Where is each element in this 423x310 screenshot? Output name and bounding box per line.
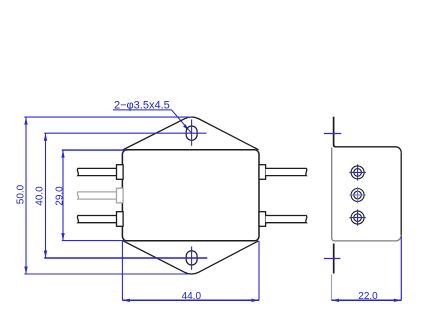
- side view: terminal 1 inner circle: [354, 169, 362, 177]
- dimension 50.0 bottom arrow: [24, 267, 27, 275]
- front view: pin R1 right lead: [266, 168, 307, 175]
- dimension 40.0 vertical line: [45, 133, 47, 258]
- side view: bottom hole centerline tick: [324, 258, 341, 260]
- front view: pin 2 left ferrule (gray): [117, 188, 124, 203]
- front view: bottom hole vertical centerline: [191, 247, 193, 270]
- front view: body outline: [122, 150, 259, 241]
- front view: pin R2 right lead: [266, 216, 307, 223]
- front view: pin 3 left ferrule: [117, 212, 124, 227]
- front view: bottom mounting tab: [123, 241, 259, 274]
- front view: bottom mounting hole: [186, 251, 197, 265]
- side view: terminal 3 outer circle: [351, 211, 364, 224]
- front view: pin 1 left ferrule: [117, 165, 124, 180]
- callout text 2-phi3.5x4.5: [114, 99, 170, 111]
- dimension 29.0 vertical line: [62, 150, 64, 241]
- callout leader line with underline: [113, 110, 192, 133]
- dimension 44.0 extension line left: [121, 241, 123, 300]
- side view: top flange: [334, 117, 336, 147]
- dimension 40.0 extension line top (hole centerline): [44, 132, 206, 134]
- dimension 40.0 extension line bottom (hole centerline): [44, 257, 207, 259]
- front view: pin R1 right ferrule: [259, 165, 266, 180]
- dimension 29.0 extension line top: [62, 149, 128, 151]
- dimension 50.0 vertical line: [25, 117, 27, 274]
- side view: body top edge: [336, 147, 402, 153]
- front view: pin 1 left lead: [77, 168, 117, 175]
- dimension 22.0 extension line right: [400, 236, 402, 300]
- dimension 40.0 text: [35, 186, 46, 206]
- svg-text:29.0: 29.0: [54, 186, 65, 206]
- side view: body bottom edge (gray): [332, 235, 402, 241]
- side view: terminal 2 crosshair (light): [349, 187, 365, 203]
- dimension 50.0 extension line top: [24, 116, 192, 118]
- side view: terminal 3 inner circle: [354, 214, 362, 222]
- svg-text:44.0: 44.0: [182, 291, 202, 302]
- svg-text:40.0: 40.0: [35, 186, 46, 206]
- dimension 29.0 top arrow: [61, 150, 64, 158]
- side view: terminal 2 inner circle: [354, 191, 362, 199]
- side view: terminal 3 crosshair: [349, 209, 365, 225]
- callout leader arrowhead: [183, 124, 188, 130]
- dimension 22.0 right arrow: [394, 299, 402, 302]
- front view: pin 3 left lead: [77, 216, 117, 223]
- dimension 44.0 line: [122, 299, 259, 301]
- front view: top mounting tab: [123, 117, 259, 150]
- dimension 44.0 left arrow: [122, 299, 129, 302]
- front view: top mounting hole: [186, 126, 197, 140]
- dimension 22.0 left arrow: [332, 299, 340, 302]
- dimension 44.0 right arrow: [252, 299, 260, 302]
- front view: top hole vertical centerline: [191, 120, 193, 146]
- side view: body right edge: [400, 152, 402, 235]
- dimension 22.0 line: [332, 299, 402, 301]
- dimension 40.0 bottom arrow: [44, 251, 47, 259]
- dimension 50.0 text: [16, 184, 27, 204]
- dimension 50.0 top arrow: [24, 117, 27, 125]
- side view: bottom flange: [333, 244, 335, 274]
- dimension 22.0 extension line left (light): [331, 275, 333, 301]
- dimension 29.0 bottom arrow: [61, 233, 64, 241]
- dimension 44.0 text: [182, 291, 202, 302]
- side view: terminal 1 outer circle: [351, 166, 364, 179]
- dimension 44.0 extension line right: [258, 241, 260, 300]
- dimension 29.0 text: [54, 186, 65, 206]
- svg-text:22.0: 22.0: [358, 291, 378, 302]
- dimension 29.0 extension line bottom: [62, 240, 125, 242]
- svg-text:50.0: 50.0: [16, 184, 27, 204]
- dimension 50.0 extension line bottom: [24, 273, 189, 275]
- side view: bracket plate left face (gray): [331, 148, 333, 239]
- dimension 40.0 top arrow: [44, 133, 47, 141]
- dimension 22.0 text: [358, 291, 378, 302]
- side view: terminal 2 outer circle: [351, 189, 364, 202]
- side view: top hole centerline tick: [324, 133, 341, 135]
- front view: pin 2 left lead (gray): [77, 192, 117, 199]
- front view: pin R2 right ferrule: [259, 212, 266, 227]
- side view: terminal 1 crosshair: [349, 164, 365, 180]
